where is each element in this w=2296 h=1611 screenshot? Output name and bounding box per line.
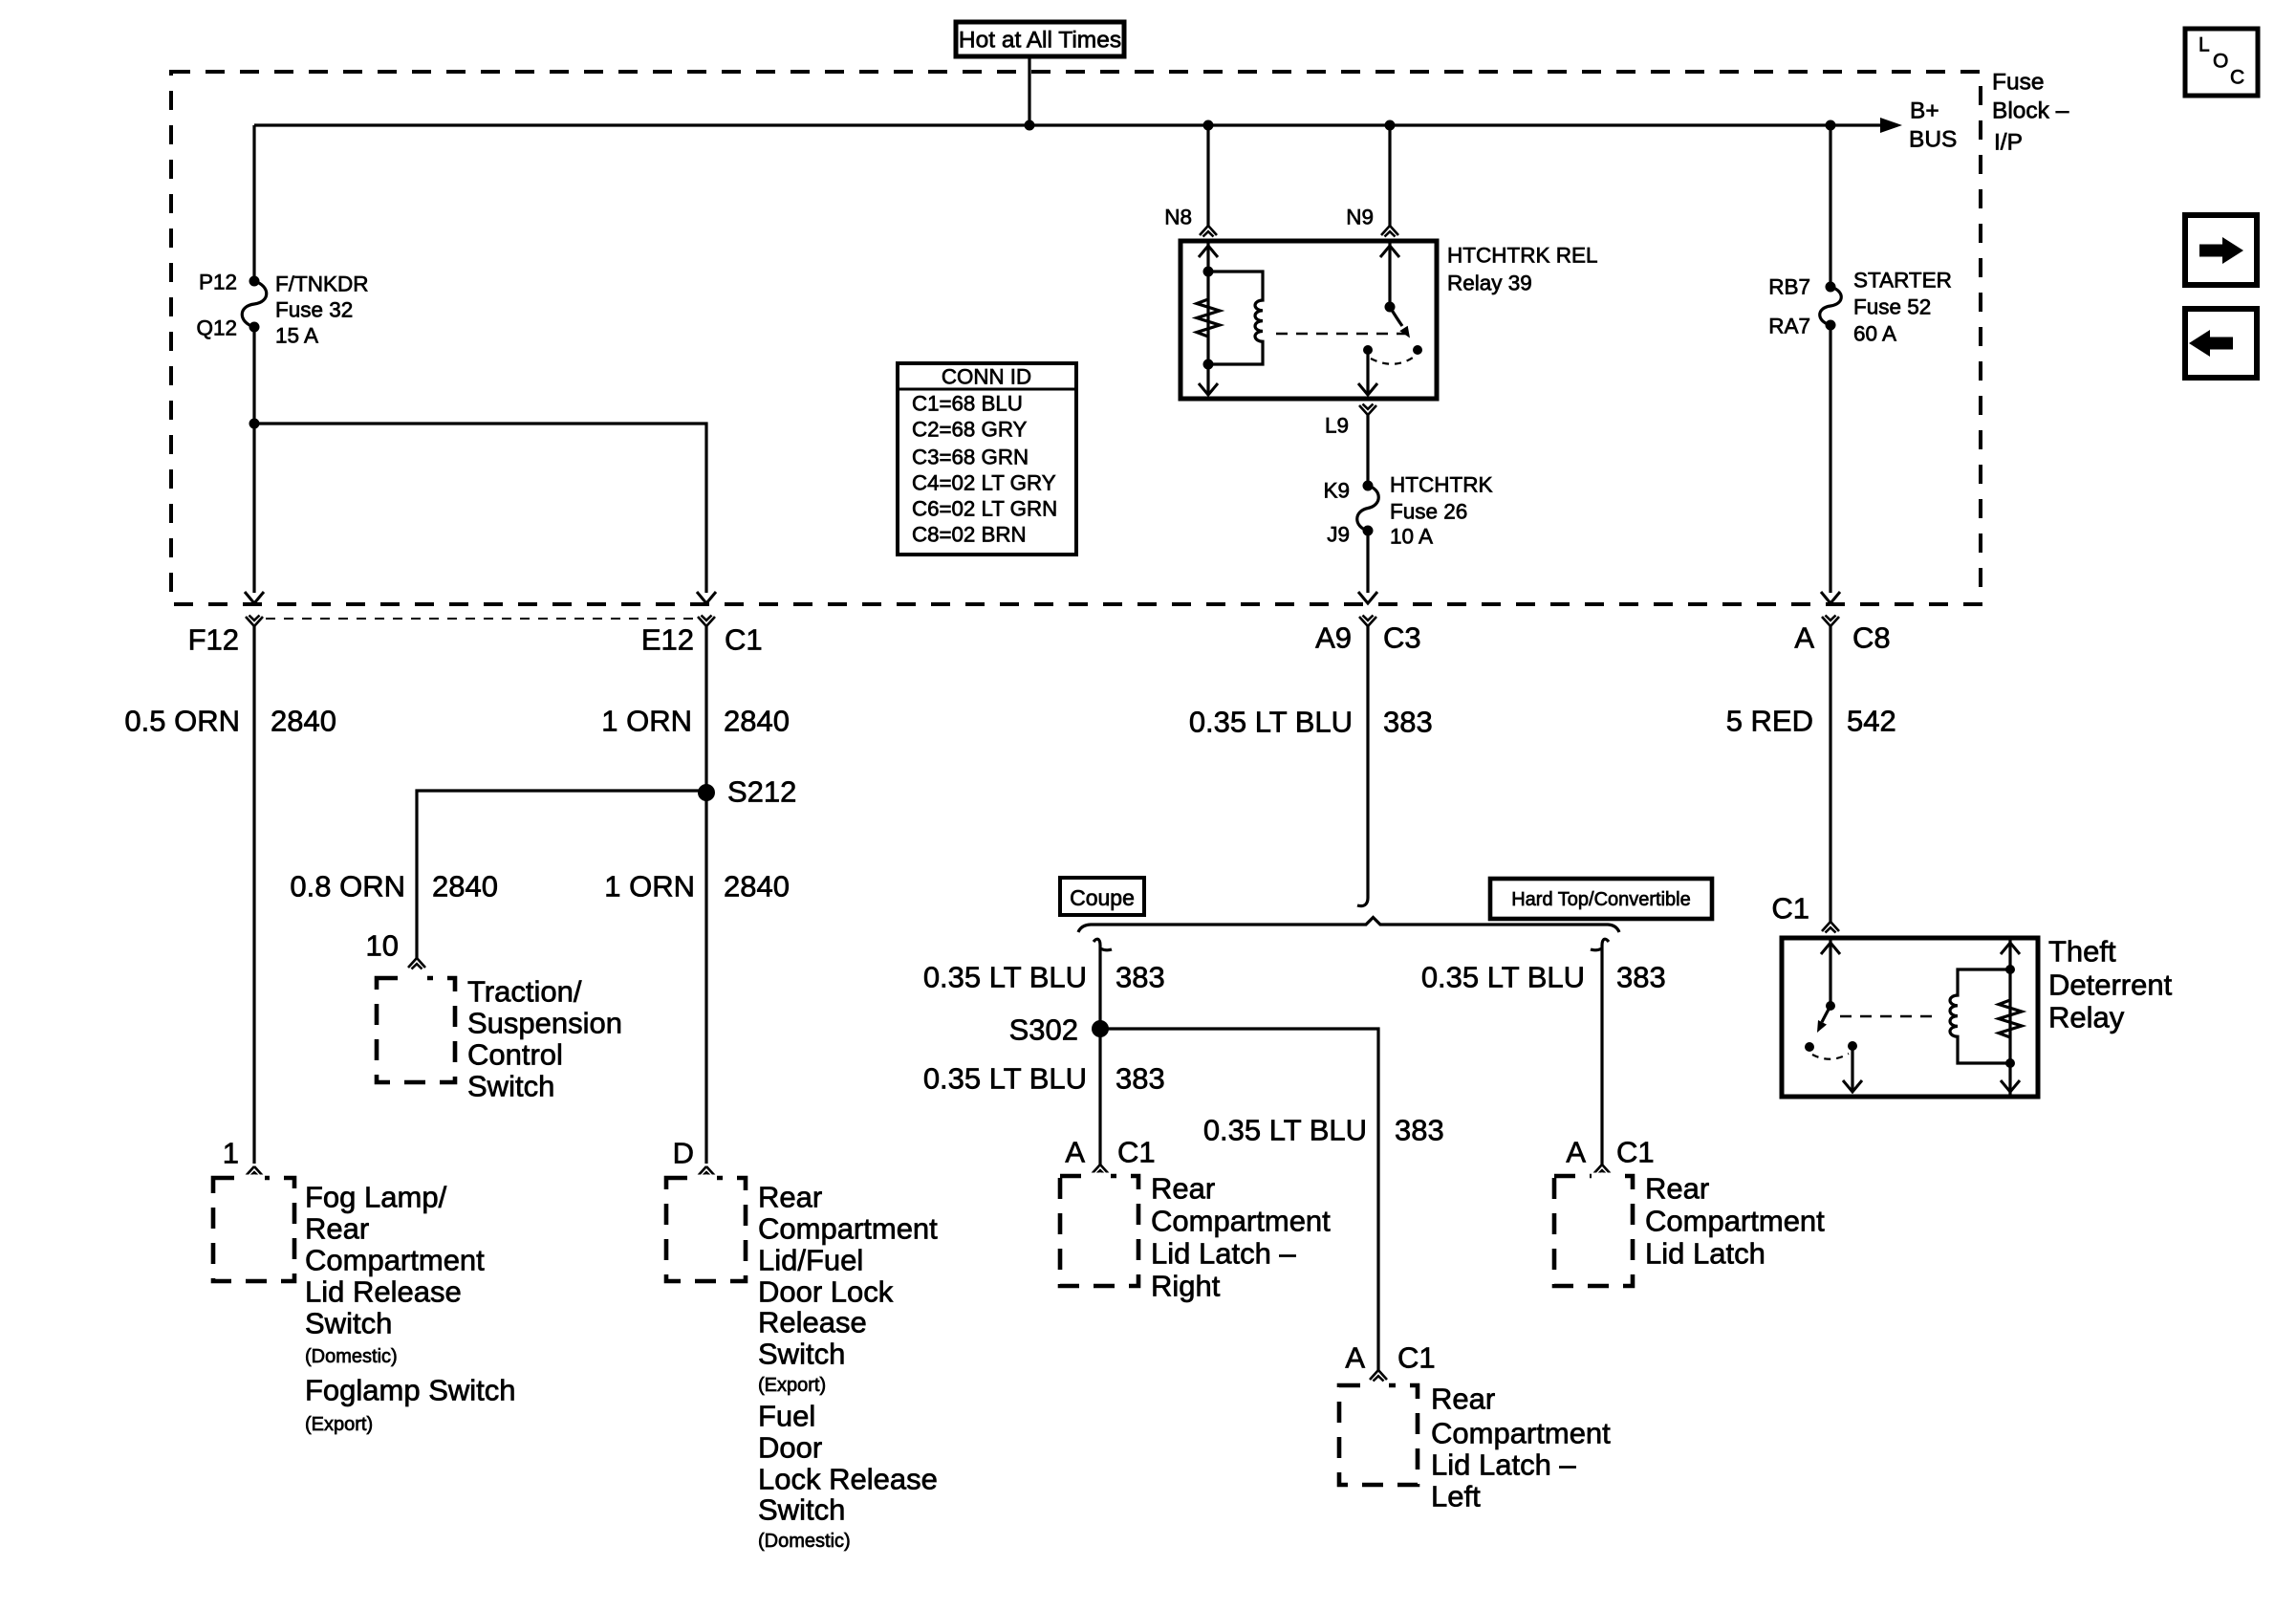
traction suspension control switch dashed box bbox=[377, 975, 455, 1083]
svg-text:0.8 ORN: 0.8 ORN bbox=[290, 870, 405, 903]
svg-text:D: D bbox=[673, 1137, 694, 1170]
theft relay coil line bbox=[2008, 938, 2011, 1097]
fuse F52 terminal dot RA7 bbox=[1826, 320, 1836, 331]
fuse block I/P dashed border bbox=[171, 72, 1981, 604]
wire label 0.8 ORN 2840 bbox=[290, 870, 498, 903]
theft relay switch common line bbox=[1829, 938, 1831, 1006]
arrowhead down coil feed bbox=[1199, 383, 1218, 395]
label Rear Compartment Lid Latch bbox=[1645, 1172, 1825, 1271]
arrowhead down theft coil bbox=[2001, 1080, 2020, 1092]
svg-text:L9: L9 bbox=[1325, 414, 1349, 438]
fuse F26 terminal dot K9 bbox=[1363, 481, 1374, 491]
junction dot N9 branch bbox=[1385, 120, 1396, 131]
svg-text:Fuse 32: Fuse 32 bbox=[275, 298, 353, 322]
svg-text:(Domestic): (Domestic) bbox=[305, 1346, 398, 1367]
svg-text:Rear: Rear bbox=[305, 1212, 369, 1246]
wire A9 drop to options brace bbox=[1357, 626, 1368, 906]
svg-text:(Domestic): (Domestic) bbox=[758, 1531, 851, 1552]
svg-text:J9: J9 bbox=[1327, 523, 1350, 547]
label Fog Lamp Rear Compartment Lid Release Switch bbox=[305, 1181, 516, 1436]
wire branch to E12 exit bbox=[254, 424, 706, 593]
arrowhead down theft output bbox=[1843, 1080, 1862, 1092]
svg-text:383: 383 bbox=[1616, 961, 1666, 994]
label Rear Compartment Lid/Fuel Door Lock Release Switch bbox=[758, 1181, 938, 1553]
svg-text:P12: P12 bbox=[199, 271, 237, 294]
connector glyph L9 bbox=[1359, 404, 1376, 416]
svg-text:N8: N8 bbox=[1164, 206, 1192, 229]
rear compartment lid latch left dashed box bbox=[1339, 1382, 1418, 1486]
wire bus to fuse F32 bbox=[252, 125, 255, 281]
wire Q12 down to F12 exit bbox=[252, 327, 255, 593]
label Fuse Block - I/P bbox=[1992, 70, 2069, 156]
svg-text:5 RED: 5 RED bbox=[1726, 705, 1813, 738]
theft relay output line bbox=[1851, 1046, 1853, 1092]
relay 39 resistor bbox=[1197, 299, 1220, 337]
page back arrow box bbox=[2185, 309, 2257, 378]
connector glyph latch bbox=[1593, 1165, 1611, 1176]
theft relay coil terminal dot top bbox=[2005, 965, 2015, 974]
svg-text:Lid Latch: Lid Latch bbox=[1645, 1237, 1765, 1271]
relay 39 blade travel dashed arc bbox=[1371, 358, 1413, 364]
svg-text:Control: Control bbox=[467, 1038, 563, 1072]
svg-text:Compartment: Compartment bbox=[758, 1212, 938, 1246]
rear compartment lid latch right dashed box bbox=[1060, 1173, 1138, 1287]
svg-text:Rear: Rear bbox=[1645, 1172, 1709, 1206]
svg-text:C3: C3 bbox=[1383, 621, 1421, 655]
junction dot N8 branch bbox=[1203, 120, 1214, 131]
svg-text:C1: C1 bbox=[1771, 892, 1809, 925]
svg-text:Lock Release: Lock Release bbox=[758, 1463, 938, 1496]
arrowhead at E12 bbox=[697, 592, 716, 603]
label Theft Deterrent Relay bbox=[2048, 935, 2173, 1034]
svg-text:Left: Left bbox=[1431, 1480, 1481, 1513]
wire hardtop drop bbox=[1591, 939, 1609, 1165]
svg-text:CONN ID: CONN ID bbox=[942, 365, 1031, 389]
theft relay NC contact dot bbox=[1805, 1042, 1814, 1052]
svg-text:C1=68 BLU: C1=68 BLU bbox=[912, 392, 1023, 416]
connector glyph E12 bbox=[698, 616, 715, 627]
svg-text:0.35 LT BLU: 0.35 LT BLU bbox=[923, 961, 1087, 994]
svg-text:Lid/Fuel: Lid/Fuel bbox=[758, 1244, 863, 1277]
svg-text:383: 383 bbox=[1383, 706, 1433, 739]
svg-text:383: 383 bbox=[1116, 1062, 1165, 1096]
connector glyph A9 C3 bbox=[1359, 616, 1376, 627]
arrowhead at A C8 bbox=[1821, 592, 1840, 603]
svg-text:BUS: BUS bbox=[1909, 127, 1957, 153]
svg-text:60 A: 60 A bbox=[1853, 322, 1896, 346]
connector glyph latch left bbox=[1370, 1370, 1387, 1382]
fuse F26 terminal dot J9 bbox=[1363, 526, 1374, 536]
svg-text:Compartment: Compartment bbox=[305, 1244, 485, 1277]
svg-text:F/TNKDR: F/TNKDR bbox=[275, 272, 369, 296]
splice S212 bbox=[698, 784, 715, 801]
svg-text:C1: C1 bbox=[725, 623, 763, 657]
wire N8 drop from bus bbox=[1206, 125, 1209, 226]
theft relay coil bbox=[1950, 969, 2010, 1063]
svg-text:I/P: I/P bbox=[1994, 130, 2023, 156]
svg-text:Lid Latch –: Lid Latch – bbox=[1431, 1448, 1576, 1482]
thin connector span dash F12 to E12 bbox=[266, 618, 695, 620]
relay 39 switch common line bbox=[1388, 241, 1391, 307]
svg-text:C6=02 LT GRN: C6=02 LT GRN bbox=[912, 497, 1057, 521]
label Rear Compartment Lid Latch Right bbox=[1151, 1172, 1331, 1303]
theft deterrent relay box bbox=[1782, 938, 2038, 1097]
svg-text:10 A: 10 A bbox=[1390, 525, 1433, 549]
svg-text:Block –: Block – bbox=[1992, 98, 2069, 124]
svg-text:1 ORN: 1 ORN bbox=[604, 870, 695, 903]
relay 39 HTCHTRK REL box bbox=[1180, 241, 1437, 399]
arrowhead up theft switch bbox=[1821, 943, 1840, 954]
fuse F32 F/TNKDR element bbox=[242, 281, 267, 327]
svg-text:2840: 2840 bbox=[432, 870, 498, 903]
relay 39 output line bbox=[1366, 349, 1369, 395]
arrowhead up coil feed bbox=[1199, 246, 1218, 257]
wire S302 branch to lid latch left bbox=[1100, 1029, 1378, 1370]
svg-text:N9: N9 bbox=[1346, 206, 1374, 229]
label STARTER Fuse 52 60 A bbox=[1853, 269, 1952, 346]
label box Coupe bbox=[1060, 878, 1144, 915]
relay 39 coil terminal dot bottom bbox=[1203, 359, 1214, 370]
svg-text:C2=68 GRY: C2=68 GRY bbox=[912, 418, 1028, 442]
relay 39 switch blade bbox=[1390, 307, 1410, 338]
svg-text:383: 383 bbox=[1395, 1114, 1444, 1147]
wire J9 to A9 exit bbox=[1366, 531, 1369, 593]
svg-text:Fuse: Fuse bbox=[1992, 70, 2044, 96]
connector glyph release switch pin D bbox=[698, 1166, 715, 1178]
svg-text:Right: Right bbox=[1151, 1270, 1221, 1303]
svg-text:Switch: Switch bbox=[758, 1338, 845, 1371]
svg-text:Relay: Relay bbox=[2048, 1001, 2125, 1034]
svg-text:0.35 LT BLU: 0.35 LT BLU bbox=[1189, 706, 1353, 739]
svg-text:C: C bbox=[2230, 67, 2244, 89]
theft relay switch blade bbox=[1817, 1006, 1830, 1033]
wire label 0.35 LT BLU 383 coupe bbox=[923, 961, 1165, 994]
wire RA7 to A C8 exit bbox=[1829, 325, 1831, 593]
wire drop to theft deterrent relay bbox=[1829, 626, 1831, 922]
wire label 1 ORN 2840 lower bbox=[604, 870, 790, 903]
fuse F26 HTCHTRK element bbox=[1357, 486, 1379, 531]
CONN ID table bbox=[898, 363, 1076, 555]
svg-text:A: A bbox=[1065, 1136, 1085, 1169]
relay 39 control dashed line bbox=[1276, 333, 1407, 336]
label Traction/Suspension Control Switch bbox=[467, 975, 622, 1103]
connector glyph F12 bbox=[246, 616, 263, 627]
svg-text:A9: A9 bbox=[1315, 621, 1352, 655]
svg-text:C3=68 GRN: C3=68 GRN bbox=[912, 446, 1029, 469]
svg-text:E12: E12 bbox=[641, 623, 694, 657]
relay 39 NO contact dot bbox=[1413, 345, 1422, 355]
svg-text:Q12: Q12 bbox=[196, 316, 237, 340]
svg-text:A: A bbox=[1566, 1136, 1586, 1169]
svg-text:K9: K9 bbox=[1323, 479, 1350, 503]
svg-text:C8=02 BRN: C8=02 BRN bbox=[912, 523, 1027, 547]
connector glyph fog switch pin 1 bbox=[246, 1166, 263, 1178]
svg-text:383: 383 bbox=[1116, 961, 1165, 994]
svg-text:Rear: Rear bbox=[1151, 1172, 1215, 1206]
fuse F32 terminal dot Q12 bbox=[249, 322, 260, 333]
svg-text:15 A: 15 A bbox=[275, 324, 318, 348]
svg-text:C4=02 LT GRY: C4=02 LT GRY bbox=[912, 471, 1056, 495]
svg-text:Hard Top/Convertible: Hard Top/Convertible bbox=[1511, 889, 1691, 910]
arrowhead down output bbox=[1358, 383, 1377, 395]
junction dot starter branch bbox=[1826, 120, 1836, 131]
label B+ BUS bbox=[1909, 98, 1957, 153]
arrowhead up theft coil bbox=[2001, 943, 2020, 954]
wire N9 drop from bus bbox=[1388, 125, 1391, 226]
label HTCHTRK REL Relay 39 bbox=[1447, 244, 1598, 295]
arrowhead at F12 bbox=[245, 592, 264, 603]
fuse F32 terminal dot P12 bbox=[249, 276, 260, 287]
relay 39 switch pivot dot bbox=[1385, 302, 1396, 313]
wire label 5 RED 542 bbox=[1726, 705, 1896, 738]
svg-text:O: O bbox=[2213, 51, 2228, 73]
svg-text:S212: S212 bbox=[727, 775, 796, 809]
svg-text:Deterrent: Deterrent bbox=[2048, 969, 2173, 1002]
arrowhead at A9 bbox=[1358, 592, 1377, 603]
wire label 0.35 LT BLU 383 bbox=[1189, 706, 1433, 739]
relay 39 coil terminal dot top bbox=[1203, 267, 1214, 277]
wire E12 drop to release switch bbox=[704, 626, 707, 1164]
label box Hard Top/Convertible bbox=[1490, 879, 1712, 919]
svg-text:0.5 ORN: 0.5 ORN bbox=[124, 705, 240, 738]
svg-text:Fuse 52: Fuse 52 bbox=[1853, 295, 1931, 319]
fuse F52 STARTER element bbox=[1820, 287, 1842, 325]
theft relay blade travel dashed arc bbox=[1812, 1054, 1849, 1059]
svg-text:Fuse 26: Fuse 26 bbox=[1390, 500, 1467, 524]
connector glyph traction pin 10 bbox=[408, 958, 425, 969]
theft relay coil terminal dot bottom bbox=[2005, 1058, 2015, 1068]
label HTCHTRK Fuse 26 10 A bbox=[1390, 473, 1493, 549]
splice S302 bbox=[1092, 1020, 1109, 1037]
connector glyph N9 bbox=[1381, 226, 1398, 237]
theft relay output contact dot bbox=[1848, 1041, 1857, 1051]
svg-text:0.35 LT BLU: 0.35 LT BLU bbox=[1421, 961, 1585, 994]
junction dot hot feed bbox=[1025, 120, 1035, 131]
svg-text:Lid Latch –: Lid Latch – bbox=[1151, 1237, 1296, 1271]
svg-text:Release: Release bbox=[758, 1306, 867, 1339]
svg-text:1: 1 bbox=[223, 1137, 239, 1170]
svg-text:A: A bbox=[1345, 1341, 1365, 1375]
LOC page reference box bbox=[2185, 29, 2258, 96]
svg-text:C1: C1 bbox=[1397, 1341, 1436, 1375]
B+ bus wire bbox=[254, 123, 1882, 126]
wire coupe drop bbox=[1094, 939, 1112, 1165]
svg-text:RB7: RB7 bbox=[1768, 275, 1810, 299]
svg-text:Suspension: Suspension bbox=[467, 1007, 622, 1040]
wire label 0.35 LT BLU 383 below S302 bbox=[923, 1062, 1165, 1096]
svg-text:Foglamp Switch: Foglamp Switch bbox=[305, 1374, 516, 1407]
page forward arrow box bbox=[2185, 215, 2257, 285]
relay 39 coil bbox=[1208, 272, 1263, 364]
Hot at All Times label box bbox=[956, 22, 1124, 56]
wire label 0.35 LT BLU 383 latch left drop bbox=[1203, 1114, 1444, 1147]
fog lamp rear compartment lid release switch dashed box bbox=[213, 1175, 294, 1282]
svg-text:C8: C8 bbox=[1852, 621, 1891, 655]
wire label 0.35 LT BLU 383 hardtop bbox=[1421, 961, 1666, 994]
connector glyph A C8 bbox=[1822, 616, 1839, 627]
svg-text:542: 542 bbox=[1847, 705, 1896, 738]
connector glyph N8 bbox=[1200, 226, 1217, 237]
svg-text:S302: S302 bbox=[1009, 1013, 1078, 1047]
svg-text:2840: 2840 bbox=[271, 705, 336, 738]
svg-text:Switch: Switch bbox=[758, 1493, 845, 1527]
svg-text:Relay 39: Relay 39 bbox=[1447, 272, 1532, 295]
wire label 1 ORN 2840 bbox=[601, 705, 790, 738]
svg-text:Traction/: Traction/ bbox=[467, 975, 582, 1009]
svg-text:RA7: RA7 bbox=[1768, 315, 1810, 338]
svg-text:Compartment: Compartment bbox=[1645, 1205, 1825, 1238]
wire hot feed into fuse block bbox=[1028, 56, 1030, 125]
svg-text:A: A bbox=[1794, 621, 1814, 655]
svg-text:Theft: Theft bbox=[2048, 935, 2116, 969]
svg-text:Rear: Rear bbox=[1431, 1382, 1495, 1416]
svg-text:(Export): (Export) bbox=[758, 1375, 826, 1396]
svg-text:Lid Release: Lid Release bbox=[305, 1275, 462, 1309]
theft relay resistor bbox=[1999, 1000, 2022, 1037]
connector glyph latch right bbox=[1092, 1165, 1109, 1176]
svg-text:0.35 LT BLU: 0.35 LT BLU bbox=[1203, 1114, 1367, 1147]
relay 39 output contact dot bbox=[1363, 345, 1373, 355]
rear compartment lid fuel door lock release switch dashed box bbox=[666, 1175, 746, 1282]
junction dot E12 branch bbox=[249, 419, 260, 429]
svg-text:Compartment: Compartment bbox=[1431, 1417, 1611, 1450]
wire bus to fuse F52 bbox=[1829, 125, 1831, 287]
svg-text:10: 10 bbox=[366, 929, 399, 963]
svg-text:2840: 2840 bbox=[724, 870, 790, 903]
arrowhead up switch common bbox=[1380, 246, 1399, 257]
svg-text:L: L bbox=[2199, 34, 2210, 56]
svg-text:C1: C1 bbox=[1616, 1136, 1655, 1169]
fuse F52 terminal dot RB7 bbox=[1826, 282, 1836, 293]
svg-text:2840: 2840 bbox=[724, 705, 790, 738]
svg-text:Rear: Rear bbox=[758, 1181, 822, 1214]
wire S212 branch to traction switch bbox=[417, 791, 706, 958]
svg-text:HTCHTRK REL: HTCHTRK REL bbox=[1447, 244, 1598, 268]
label F/TNKDR Fuse 32 15 A bbox=[275, 272, 369, 348]
rear compartment lid latch dashed box bbox=[1554, 1173, 1633, 1287]
svg-text:Door Lock: Door Lock bbox=[758, 1275, 894, 1309]
svg-text:Fuel: Fuel bbox=[758, 1400, 815, 1433]
connector glyph theft relay C1 bbox=[1822, 922, 1839, 933]
svg-text:Switch: Switch bbox=[305, 1307, 392, 1340]
svg-text:Hot at All Times: Hot at All Times bbox=[959, 28, 1121, 54]
svg-text:(Export): (Export) bbox=[305, 1414, 373, 1435]
svg-text:Coupe: Coupe bbox=[1070, 885, 1135, 910]
svg-text:Door: Door bbox=[758, 1431, 822, 1465]
svg-text:HTCHTRK: HTCHTRK bbox=[1390, 473, 1493, 497]
label Rear Compartment Lid Latch Left bbox=[1431, 1382, 1611, 1513]
svg-text:0.35 LT BLU: 0.35 LT BLU bbox=[923, 1062, 1087, 1096]
svg-text:STARTER: STARTER bbox=[1853, 269, 1952, 293]
B+ bus arrowhead bbox=[1880, 118, 1902, 133]
theft relay switch pivot dot bbox=[1826, 1001, 1835, 1011]
options brace coupe hardtop split bbox=[1078, 918, 1619, 933]
svg-text:B+: B+ bbox=[1910, 98, 1939, 124]
relay 39 coil feed line bbox=[1206, 241, 1209, 395]
wire label 0.5 ORN 2840 bbox=[124, 705, 336, 738]
svg-text:1 ORN: 1 ORN bbox=[601, 705, 692, 738]
wire F12 drop to fog lamp switch bbox=[252, 626, 255, 1164]
svg-text:C1: C1 bbox=[1117, 1136, 1156, 1169]
svg-text:F12: F12 bbox=[188, 623, 239, 657]
svg-text:Fog Lamp/: Fog Lamp/ bbox=[305, 1181, 447, 1214]
theft relay control dashed line bbox=[1840, 1015, 1940, 1018]
wire L9 to K9 bbox=[1366, 415, 1369, 486]
svg-text:Switch: Switch bbox=[467, 1070, 554, 1103]
svg-text:Compartment: Compartment bbox=[1151, 1205, 1331, 1238]
